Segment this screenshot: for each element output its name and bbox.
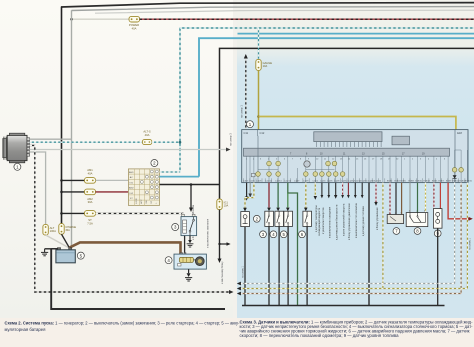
label circled 5 [280, 231, 287, 238]
wires into switch 8 [410, 183, 426, 213]
label circled 6 [299, 231, 306, 238]
instrument cluster block [242, 130, 468, 183]
wire brown battery to starter [70, 242, 181, 254]
wire brown dashed to bus [460, 183, 462, 294]
cluster indicator lamps lower row [256, 168, 464, 177]
sensor 2 fuel level sender [241, 212, 250, 227]
wire sensor 9 to ground bus [437, 228, 439, 305]
ignition switch 2 contact table [128, 169, 159, 206]
svg-text:40A: 40A [145, 133, 150, 137]
wire stub gray below cluster left [248, 183, 252, 198]
svg-text:7.5A: 7.5A [87, 222, 93, 226]
wire black dashed ST fuse to relay [96, 212, 183, 214]
svg-text:E18/9: E18/9 [446, 181, 452, 183]
ground symbol at battery [41, 249, 48, 256]
bus gray dashed bottom [237, 282, 455, 286]
svg-text:C12/13: C12/13 [275, 181, 282, 183]
svg-text:к выключателю освещения: к выключателю освещения [329, 206, 332, 238]
label circled 1 instrument cluster [247, 121, 254, 128]
speed sensor 7 [387, 212, 403, 223]
label circled 9 [434, 230, 441, 237]
wire generator black-white dashed (L terminal) [30, 145, 234, 294]
svg-text:POWER: POWER [129, 23, 139, 27]
svg-text:AC: AC [130, 176, 133, 179]
cluster connector tick marks [244, 178, 465, 182]
svg-text:100A: 100A [50, 229, 56, 233]
wire CHARGE fuse to battery plus (diagonal) [62, 234, 70, 247]
wire red to right edge arrow [448, 183, 473, 221]
bus black ground bottom [242, 305, 445, 307]
wire olive bus to cluster [259, 117, 456, 130]
cluster gauge circle [304, 161, 310, 167]
svg-text:E18/15: E18/15 [466, 181, 473, 183]
wire black ground bus bottom [51, 249, 225, 309]
label circled 2 [253, 215, 260, 222]
fuse IG1 on x219.5 [217, 199, 229, 210]
label circled 4 [270, 231, 277, 238]
bus olive dashed bottom [237, 287, 468, 291]
svg-text:C12/6: C12/6 [327, 181, 333, 183]
svg-text:к блоку управления двигателем: к блоку управления двигателем [348, 203, 351, 240]
svg-text:на схему 1: на схему 1 [468, 237, 471, 250]
wire branch right with arrow [218, 242, 230, 246]
wire top gray bus [72, 7, 474, 11]
svg-text:E18/7: E18/7 [439, 181, 445, 183]
svg-text:ALT: ALT [50, 226, 55, 230]
svg-text:C11/5: C11/5 [250, 181, 256, 183]
wire black below IG1 fuse [218, 210, 222, 263]
svg-text:40A: 40A [88, 172, 93, 176]
cluster LCD module [314, 132, 382, 147]
wire maroon AM2 to ignition switch [96, 191, 129, 193]
svg-text:C12: C12 [260, 131, 265, 135]
svg-text:C12/11: C12/11 [266, 181, 273, 183]
wire white feed to POWER fuse [72, 18, 130, 20]
wire dark green to sensor 4 [276, 183, 280, 212]
cluster diode [453, 175, 457, 178]
wire olive dashed to sensor 6 [304, 183, 308, 212]
svg-text:C12/9: C12/9 [303, 181, 309, 183]
svg-text:к выключателю зажигания: к выключателю зажигания [207, 218, 210, 248]
fuel gauge sensor 9 [433, 209, 442, 229]
fuse AM2 30A [85, 189, 96, 204]
wire gray dashed to bus [454, 183, 456, 284]
wire cyan solid second (right panel only) [238, 33, 474, 35]
label circled 4 starter [165, 257, 172, 264]
wire green T to sensor 5 and bypass [286, 183, 298, 306]
svg-text:E18/8: E18/8 [409, 181, 415, 183]
fuse CHARGE vertical [59, 224, 77, 235]
cluster indicator lamps upper row [267, 161, 337, 166]
odometer switch 8 [406, 211, 428, 227]
svg-text:E18/5: E18/5 [432, 181, 438, 183]
svg-text:скорости; 8 — переключатель по: скорости; 8 — переключатель показаний од… [240, 333, 400, 338]
caption scheme 2 [5, 321, 241, 333]
svg-text:C11: C11 [244, 131, 249, 135]
wire starter to ground [185, 269, 192, 281]
wire teal dashed fuse to vertical [152, 141, 182, 144]
svg-text:E18/6: E18/6 [401, 181, 407, 183]
wire top black bus [61, 3, 474, 7]
wire teal dashed L (top) [180, 28, 474, 172]
wire vertical black feeder x62 [61, 7, 63, 224]
wire to fuse ST [62, 212, 85, 214]
fuse AM1 40A [85, 168, 96, 183]
svg-text:к реле указателей поворота: к реле указателей поворота [342, 203, 345, 236]
cluster internal wires [247, 136, 468, 183]
sensor 5 brake fluid level switch [284, 211, 293, 226]
svg-text:ST: ST [88, 218, 92, 222]
svg-text:E18: E18 [457, 131, 462, 135]
caption band [0, 318, 474, 347]
svg-text:AM1: AM1 [129, 171, 134, 174]
battery 5 [56, 248, 75, 263]
svg-text:E18/12: E18/12 [424, 181, 431, 183]
svg-text:40A: 40A [132, 26, 137, 30]
svg-text:C12/4: C12/4 [320, 181, 326, 183]
wire olive dashed to fuel sender 2 [243, 183, 254, 212]
wire maroon dashed stub [374, 183, 377, 206]
wire generator B+ gray [30, 138, 72, 140]
junction nodes on x62 feeder [60, 179, 63, 182]
wire olive dashed right to bus [466, 183, 468, 289]
caption scheme 3 [240, 320, 474, 338]
fuse ALT vertical [43, 224, 56, 235]
svg-text:C12/8: C12/8 [334, 181, 340, 183]
wire relay to ground [187, 236, 194, 247]
label circled 2 ignition switch [151, 160, 158, 167]
sensor 3 seat belt switch [265, 211, 274, 226]
cluster pin labels row [243, 181, 473, 183]
svg-text:C12/2: C12/2 [313, 181, 319, 183]
fuse GAUGE [256, 59, 272, 70]
left panel background [0, 0, 237, 318]
svg-text:на схему 1: на схему 1 [241, 265, 244, 278]
svg-text:к указателю поворотов: к указателю поворотов [322, 207, 325, 234]
svg-text:AM2: AM2 [129, 187, 134, 190]
svg-text:AM1: AM1 [87, 168, 93, 172]
svg-text:AM2: AM2 [87, 197, 93, 201]
svg-text:30A: 30A [65, 229, 70, 232]
svg-text:10A: 10A [263, 64, 268, 68]
wire olive dashed long to bus [382, 183, 384, 289]
cluster pin numbers under bar [246, 158, 446, 160]
wire teal dashed drop to GAUGE fuse [258, 28, 260, 59]
sensor 4 parking brake switch [275, 211, 284, 226]
junction node at gray vertical / POWER feed [70, 18, 73, 21]
label circled 1 generator [14, 163, 21, 170]
wire black from table row4 to x219.5 [160, 183, 220, 186]
svg-text:ACC: ACC [140, 199, 143, 204]
wires sensors to ground bus [245, 226, 307, 305]
label circled 7 [393, 228, 400, 235]
cluster small contact box [251, 173, 255, 176]
label circled 8 [414, 228, 421, 235]
svg-text:10A: 10A [224, 204, 229, 208]
starter 4 [174, 253, 206, 270]
svg-text:30A: 30A [88, 200, 93, 204]
wire black L to ignition switch [220, 48, 474, 199]
wire long black to ground bus [368, 183, 370, 306]
wire maroon-black dashed from POWER fuse to right edge [140, 18, 474, 20]
generator G1 body [3, 133, 30, 163]
wire maroon to sensor 3 [267, 183, 271, 212]
bus brown dashed bottom [237, 292, 461, 296]
svg-text:к датчику ремня безопасности: к датчику ремня безопасности [336, 204, 339, 240]
wire vertical gray battery feed x71.5 [70, 10, 72, 249]
svg-text:к выключателю стоп-сигналов: к выключателю стоп-сигналов [355, 202, 358, 238]
wire teal dashed into table row1 [160, 171, 181, 173]
svg-text:C12/20: C12/20 [375, 181, 382, 183]
fuse ST [85, 211, 96, 226]
svg-text:на схему 1: на схему 1 [239, 105, 243, 118]
rotated wire labels [315, 202, 379, 240]
wire cyan solid L [199, 38, 474, 176]
svg-text:C12/15: C12/15 [285, 181, 292, 183]
wire olive below fuse [257, 70, 260, 129]
wire generator gray down to ALT fuse [30, 152, 46, 224]
wire to fuse AM1 [62, 179, 85, 181]
svg-text:на схему 3: на схему 3 [229, 133, 233, 146]
wires into switch 7 [390, 183, 402, 215]
wire stub black below cluster left [245, 183, 249, 201]
wire gray AM1 to ignition switch [96, 179, 129, 181]
label circled 3 [260, 231, 267, 238]
wire ALT fuse to battery plus (diagonal) [46, 235, 69, 248]
svg-text:LOCK: LOCK [136, 197, 138, 203]
svg-text:охлаждающей жидкости: охлаждающей жидкости [318, 207, 321, 236]
svg-text:C11/3: C11/3 [243, 181, 249, 183]
wire black-white dashed from scheme1 to cluster [244, 54, 248, 130]
svg-text:муляторная батарея: муляторная батарея [5, 327, 47, 332]
cluster bus bar [244, 148, 450, 156]
wire relay output to starter [184, 236, 186, 254]
svg-text:E18/2: E18/2 [387, 181, 393, 183]
fuse POWER 40A [129, 16, 140, 30]
wire generator teal dashed to ALT-S fuse [30, 141, 143, 143]
svg-text:ALT-S: ALT-S [143, 130, 150, 134]
fuse ALT-S [142, 130, 151, 145]
label circled 3 relay [172, 224, 179, 231]
svg-text:к монтажному блоку: к монтажному блоку [221, 261, 224, 284]
cluster module 2 [392, 136, 410, 145]
svg-text:к блоку управления: к блоку управления [376, 207, 379, 230]
sensor 6 oil pressure switch [303, 211, 312, 226]
wire battery minus to ground [45, 248, 58, 250]
starter relay 3 [181, 213, 197, 236]
wire cyan into table row2 [160, 176, 200, 178]
svg-text:E18/10: E18/10 [416, 181, 423, 183]
wires into sensor 9 [434, 183, 441, 209]
right panel background [236, 0, 474, 318]
svg-text:C12/7: C12/7 [294, 181, 300, 183]
wire black branch down with arrow [189, 185, 193, 213]
svg-text:к датчику уровня топлива: к датчику уровня топлива [362, 206, 365, 236]
label circled 5 battery [77, 252, 84, 259]
wire top light gray bus [95, 10, 474, 13]
wire stubs with arrows and rotated labels (middle) [314, 183, 317, 200]
svg-text:Схема 2. Система пуска: 1 — ге: Схема 2. Система пуска: 1 — генератор; 2… [5, 321, 241, 326]
wire to fuse AM2 [62, 191, 85, 193]
svg-text:C11/9: C11/9 [256, 181, 262, 183]
wire generator gray to scheme3 arrow [30, 148, 231, 152]
